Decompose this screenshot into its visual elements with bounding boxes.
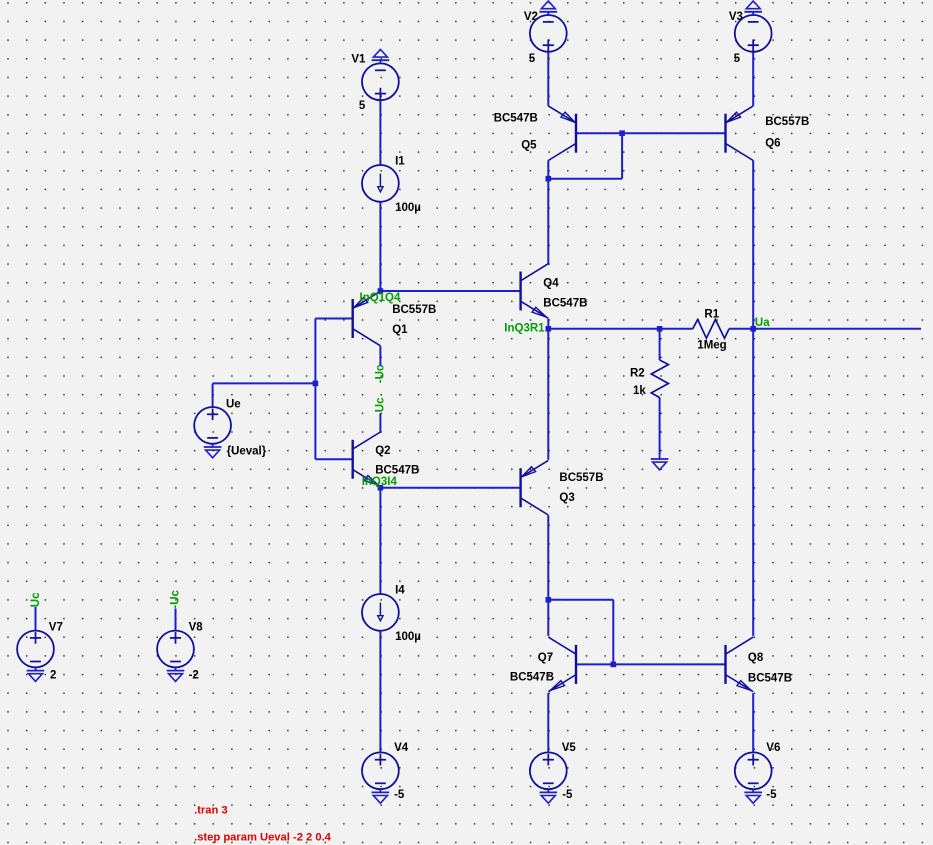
svg-text:-5: -5 xyxy=(394,789,405,801)
junction lower mirror xyxy=(546,597,552,603)
junction Q5 base tie xyxy=(619,130,625,136)
wire Q1 base stub xyxy=(315,318,352,320)
svg-text:5: 5 xyxy=(359,100,366,112)
voltage source V6 xyxy=(735,752,772,789)
label V1 xyxy=(351,54,366,66)
label Q5 xyxy=(521,140,537,152)
wire R2 top xyxy=(659,329,661,360)
label Q7 xyxy=(538,652,553,664)
transistor Q7 xyxy=(548,637,576,692)
junction Q5 collector tie xyxy=(546,176,552,182)
svg-text:2: 2 xyxy=(50,670,56,682)
resistor R2 xyxy=(651,360,668,398)
svg-text:Q8: Q8 xyxy=(748,652,764,664)
junction InQ3R1 xyxy=(546,326,552,332)
svg-text:1Meg: 1Meg xyxy=(697,340,726,352)
label Q1 xyxy=(392,324,408,336)
label BC557B of Q3 xyxy=(559,472,603,484)
svg-text:R2: R2 xyxy=(630,367,645,379)
label V8 xyxy=(189,622,204,634)
value -5 of V5 xyxy=(562,789,573,801)
wire Ua output xyxy=(753,328,921,330)
junction Q7 base tie xyxy=(611,662,617,668)
wire mirror link vertical xyxy=(621,133,623,179)
svg-text:.step param Ueval -2 2 0.4: .step param Ueval -2 2 0.4 xyxy=(194,831,332,843)
ground at V6 xyxy=(744,789,762,803)
wire lower mirror horizontal xyxy=(548,599,613,601)
wire Q4 emitter to Q3 emitter xyxy=(547,319,549,460)
value {Ueval} of Ue xyxy=(227,445,267,457)
svg-text:V5: V5 xyxy=(562,742,577,754)
label R2 xyxy=(630,367,645,379)
svg-text:InQ1Q4: InQ1Q4 xyxy=(360,292,402,304)
node InQ3R1 label xyxy=(504,323,545,335)
label V5 xyxy=(562,742,577,754)
svg-text:V8: V8 xyxy=(189,622,204,634)
label Q8 xyxy=(748,652,764,664)
value 5 of V1 xyxy=(359,100,366,112)
svg-text:R1: R1 xyxy=(704,309,719,321)
svg-text:100µ: 100µ xyxy=(395,631,421,643)
svg-text:BC557B: BC557B xyxy=(392,304,436,316)
svg-text:InQ3R1: InQ3R1 xyxy=(504,323,545,335)
wire InQ3I4 to I4 xyxy=(379,488,381,594)
voltage source V2 xyxy=(530,15,567,52)
svg-text:{Ueval}: {Ueval} xyxy=(227,445,267,457)
ground at V8 xyxy=(167,667,185,681)
svg-text:-Uc: -Uc xyxy=(169,589,181,608)
svg-text:-5: -5 xyxy=(562,789,573,801)
label BC547B of Q4 xyxy=(543,298,587,310)
svg-text:BC557B: BC557B xyxy=(559,472,603,484)
ground at V3 xyxy=(744,1,762,15)
wire V7 stub xyxy=(35,607,37,631)
svg-text:Ue: Ue xyxy=(226,398,241,410)
junction R2 top xyxy=(657,326,663,332)
wire I4 to V4 xyxy=(379,631,381,753)
spice directive .tran 3 xyxy=(194,805,228,817)
value 100µ of I4 xyxy=(395,631,421,643)
voltage source V4 xyxy=(362,752,399,789)
junction Ue base rail xyxy=(313,381,319,387)
wire Ue to base rail xyxy=(213,382,316,384)
value 5 of V2 xyxy=(529,53,536,65)
svg-text:Q1: Q1 xyxy=(392,324,408,336)
label BC557B of Q1 xyxy=(392,304,436,316)
value 1Meg of R1 xyxy=(697,340,726,352)
value -2 of V8 xyxy=(189,670,199,682)
ground at R2 xyxy=(651,456,669,470)
svg-text:-2: -2 xyxy=(189,670,199,682)
ground at V4 xyxy=(372,789,390,803)
junction Ua xyxy=(750,326,756,332)
node Ua label xyxy=(755,317,770,329)
svg-text:Ua: Ua xyxy=(755,317,770,329)
node Uc label at Q2 xyxy=(375,397,387,412)
wire Q2 base stub xyxy=(315,458,352,460)
label BC557B of Q6 xyxy=(765,116,809,128)
wire Q5 collector to Q4 collector xyxy=(547,160,549,263)
junction InQ1Q4 xyxy=(378,288,384,294)
wire Q7 base to Q8 base xyxy=(576,663,726,665)
label I4 xyxy=(395,584,405,596)
label V7 xyxy=(49,622,63,634)
svg-text:BC547B: BC547B xyxy=(375,465,419,477)
wire I1 to node InQ1Q4 xyxy=(379,202,381,291)
label BC547B of Q5 xyxy=(494,113,538,125)
svg-text:BC547B: BC547B xyxy=(748,672,792,684)
value 2 of V7 xyxy=(50,670,56,682)
label V2 xyxy=(524,11,538,23)
node InQ1Q4 label xyxy=(360,292,402,304)
ground at V7 xyxy=(27,667,45,681)
svg-text:-5: -5 xyxy=(766,789,777,801)
svg-text:1k: 1k xyxy=(633,385,646,397)
svg-text:Q5: Q5 xyxy=(521,140,537,152)
label V4 xyxy=(394,742,409,754)
current source I1 xyxy=(362,165,399,202)
voltage source Ue xyxy=(194,407,231,444)
value 1k of R2 xyxy=(633,385,646,397)
svg-text:Q3: Q3 xyxy=(559,492,574,504)
voltage source V3 xyxy=(735,15,772,52)
voltage source V7 xyxy=(17,631,54,668)
wire InQ1Q4 to Q4 base xyxy=(380,290,520,292)
wire V3 to Q6 emitter xyxy=(752,52,754,106)
svg-text:V3: V3 xyxy=(729,11,743,23)
svg-text:.tran 3: .tran 3 xyxy=(194,805,228,817)
wire Q7 emitter to V5 xyxy=(547,693,549,752)
svg-text:BC557B: BC557B xyxy=(765,116,809,128)
label Ue xyxy=(226,398,241,410)
label I1 xyxy=(395,155,405,167)
svg-text:Uc: Uc xyxy=(30,592,42,607)
svg-text:InQ3I4: InQ3I4 xyxy=(362,476,398,488)
node -Uc label at V8 xyxy=(169,589,181,608)
ground at V2 xyxy=(540,1,558,15)
svg-text:BC547B: BC547B xyxy=(510,671,554,683)
node Uc label at V7 xyxy=(30,592,42,607)
ground at V5 xyxy=(540,789,558,803)
wire Q2 collector stub to Uc xyxy=(379,413,381,431)
transistor Q8 xyxy=(726,637,754,692)
ground at V1 xyxy=(372,49,390,63)
wire Q8 emitter to V6 xyxy=(752,693,754,752)
transistor Q2 xyxy=(353,432,381,487)
wire V8 stub xyxy=(175,609,177,631)
wire Ue vertical xyxy=(212,383,214,407)
value -5 of V6 xyxy=(766,789,777,801)
value 5 of V3 xyxy=(734,53,741,65)
svg-text:V7: V7 xyxy=(49,622,63,634)
value 100µ of I1 xyxy=(395,202,421,214)
label Q2 xyxy=(375,445,390,457)
label BC547B of Q7 xyxy=(510,671,554,683)
node InQ3I4 label xyxy=(362,476,398,488)
label BC547B of Q8 xyxy=(748,672,792,684)
junction InQ3I4 xyxy=(378,485,384,491)
transistor Q6 xyxy=(726,106,754,161)
voltage source V8 xyxy=(157,631,194,668)
value -5 of V4 xyxy=(394,789,405,801)
svg-text:5: 5 xyxy=(529,53,536,65)
wire InQ3I4 to Q3 base xyxy=(380,487,520,489)
svg-text:Q4: Q4 xyxy=(543,277,559,289)
svg-text:-Uc: -Uc xyxy=(374,364,386,383)
svg-text:I4: I4 xyxy=(395,584,405,596)
wire Q1 collector stub to -Uc xyxy=(379,346,381,367)
wire V2 to Q5 emitter xyxy=(547,52,549,106)
wire Q5 base to Q6 base xyxy=(576,132,726,134)
svg-text:I1: I1 xyxy=(395,155,405,167)
svg-text:5: 5 xyxy=(734,53,741,65)
svg-text:Uc: Uc xyxy=(375,397,387,412)
svg-text:BC547B: BC547B xyxy=(494,113,538,125)
label BC547B of Q2 xyxy=(375,465,419,477)
svg-text:Q6: Q6 xyxy=(765,138,780,150)
wire V1 to I1 xyxy=(379,100,381,165)
transistor Q3 xyxy=(521,460,549,515)
current source I4 xyxy=(362,594,399,631)
transistor Q4 xyxy=(521,264,549,319)
svg-text:Q2: Q2 xyxy=(375,445,390,457)
voltage source V5 xyxy=(530,752,567,789)
label V6 xyxy=(766,742,780,754)
svg-text:V6: V6 xyxy=(766,742,780,754)
svg-text:V1: V1 xyxy=(351,54,366,66)
wire R2 bottom xyxy=(659,398,661,456)
wire base rail Q1-Q2 xyxy=(314,319,316,460)
label V3 xyxy=(729,11,743,23)
svg-text:V4: V4 xyxy=(394,742,409,754)
svg-text:Q7: Q7 xyxy=(538,652,553,664)
wire lower mirror vertical xyxy=(612,600,614,665)
resistor R1 xyxy=(693,320,729,339)
svg-text:V2: V2 xyxy=(524,11,538,23)
label Q3 xyxy=(559,492,574,504)
voltage source V1 xyxy=(362,63,399,100)
transistor Q5 xyxy=(548,106,576,161)
wire mirror link horizontal xyxy=(548,178,622,180)
label R1 xyxy=(704,309,719,321)
wire right rail Q6 to Q8 xyxy=(752,160,754,636)
ground at Ue xyxy=(204,444,222,458)
wire R1 to Ua xyxy=(729,328,753,330)
label Q4 xyxy=(543,277,559,289)
svg-text:BC547B: BC547B xyxy=(543,298,587,310)
transistor Q1 xyxy=(353,291,381,346)
wire Q3 collector to Q7 collector xyxy=(547,515,549,636)
svg-text:100µ: 100µ xyxy=(395,202,421,214)
node -Uc label at Q1 xyxy=(374,364,386,383)
label Q6 xyxy=(765,138,780,150)
spice directive .step param xyxy=(194,831,332,843)
wire InQ3R1 to R1 xyxy=(548,328,692,330)
